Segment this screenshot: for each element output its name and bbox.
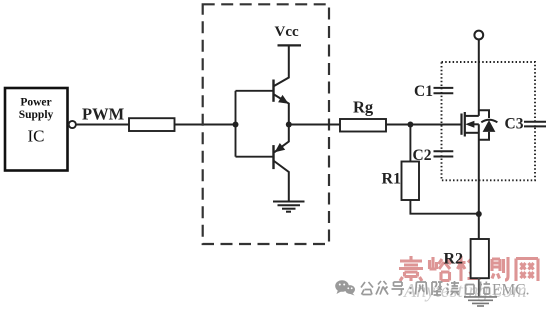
wire base Q1	[236, 90, 274, 92]
transistor Q3 MOSFET	[462, 112, 479, 137]
wire Rg to gate	[386, 124, 461, 126]
svg-text:C1: C1	[414, 83, 433, 100]
resistor R2	[444, 239, 489, 278]
capacitor C2	[413, 147, 456, 164]
wire gate node down to R1	[409, 125, 411, 162]
node source junction	[476, 211, 482, 217]
wire driver output to Rg	[289, 124, 340, 126]
transistor Q1 NPN	[274, 45, 289, 124]
svg-text:IC: IC	[28, 127, 45, 146]
watermark red text 嘉峪检测网	[399, 256, 538, 281]
Vcc power symbol	[275, 24, 302, 45]
svg-text:R2: R2	[444, 251, 464, 268]
svg-text:EMC.: EMC.	[492, 282, 529, 299]
ground driver stage	[273, 202, 305, 212]
node driver output junction	[286, 122, 292, 128]
svg-text:C2: C2	[413, 147, 432, 164]
wire R1 bottom to source node	[410, 200, 478, 214]
wire base bus vertical	[235, 91, 237, 157]
resistor R1	[382, 162, 420, 201]
series resistor (unlabeled)	[129, 118, 175, 131]
svg-text:Supply: Supply	[19, 109, 54, 121]
resistor Rg	[340, 98, 386, 132]
svg-text:Power: Power	[20, 97, 51, 109]
wechat icon	[335, 280, 355, 295]
transistor Q2 PNP	[274, 125, 289, 202]
svg-text:R1: R1	[382, 171, 402, 188]
svg-text:PWM: PWM	[82, 105, 125, 124]
node gate junction	[407, 122, 413, 128]
ground below R2	[464, 297, 497, 306]
wire base Q2	[236, 156, 274, 158]
capacitor C1	[414, 83, 455, 100]
terminal circle drain	[474, 31, 483, 40]
wire drain vertical	[478, 39, 480, 116]
dashed box driver stage	[203, 4, 329, 244]
wire R2 to ground	[478, 278, 480, 296]
PWM output terminal circle	[69, 121, 76, 128]
svg-text:C3: C3	[505, 116, 524, 133]
wire PWM to series resistor	[76, 124, 129, 126]
dotted box MOSFET parasitics	[442, 62, 536, 180]
wire resistor to driver input node	[175, 124, 236, 126]
capacitor C3	[505, 116, 549, 133]
wire source bus	[478, 124, 480, 239]
watermark gray text 公众号：风陵渡口话EMC	[361, 281, 490, 295]
power supply IC box U1	[5, 88, 68, 171]
diode body D1	[479, 110, 498, 140]
svg-text:Rg: Rg	[353, 98, 374, 117]
node input junction	[233, 122, 239, 128]
svg-text:Vcc: Vcc	[275, 24, 299, 40]
